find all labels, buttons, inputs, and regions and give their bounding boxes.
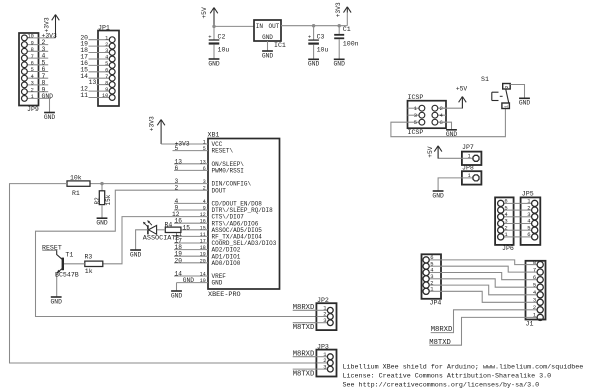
wire JP4 pin 6 to J1 pin 8 — [441, 260, 526, 265]
svg-text:3: 3 — [323, 363, 326, 370]
svg-text:9: 9 — [105, 87, 108, 93]
svg-text:18: 18 — [200, 245, 206, 251]
svg-text:2: 2 — [175, 185, 179, 192]
svg-text:C3: C3 — [317, 34, 325, 41]
svg-text:6: 6 — [175, 165, 179, 172]
svg-text:+5V: +5V — [201, 7, 208, 19]
wire JP7 to +5V — [438, 148, 462, 159]
ground (C1) — [334, 59, 346, 67]
svg-text:15: 15 — [200, 225, 206, 231]
ground (S1) — [519, 98, 531, 106]
svg-text:M8TXD: M8TXD — [429, 339, 451, 347]
svg-text:6: 6 — [203, 166, 206, 172]
svg-text:15: 15 — [183, 224, 191, 231]
led ASSOCIATE — [143, 220, 180, 242]
svg-text:S1: S1 — [481, 76, 489, 83]
svg-text:100n: 100n — [343, 40, 359, 47]
svg-text:+3V3: +3V3 — [43, 17, 50, 32]
wire S1 pin 2 to ground — [510, 85, 524, 99]
transistor T1 BC547B — [55, 250, 85, 297]
ground (C2) — [208, 59, 220, 67]
svg-text:4: 4 — [203, 199, 206, 205]
connector JP7 — [462, 144, 482, 165]
svg-text:C1: C1 — [343, 26, 351, 33]
svg-text:7: 7 — [105, 74, 108, 80]
capacitor C2 10u — [208, 33, 229, 59]
power +3V3 (above JP9) — [43, 15, 59, 38]
svg-text:13: 13 — [89, 79, 97, 86]
svg-text:GND: GND — [308, 61, 320, 68]
svg-text:See http://creativecommons.org: See http://creativecommons.org/licenses/… — [343, 381, 540, 388]
svg-text:1: 1 — [31, 94, 34, 100]
ground (JP9 pin1) — [44, 113, 56, 121]
svg-text:R4: R4 — [165, 221, 173, 228]
wire XB1 pin 15 to R4 — [181, 224, 208, 231]
svg-text:M8RXD: M8RXD — [293, 351, 315, 359]
svg-text:1: 1 — [503, 105, 509, 108]
svg-text:5: 5 — [31, 67, 34, 73]
ground (ICSP) — [446, 130, 458, 138]
svg-text:4: 4 — [31, 74, 34, 80]
wire JP4 pin 2 to J1 pin 4 — [441, 285, 526, 295]
svg-text:IN: IN — [256, 23, 264, 30]
wire ICSP pin 5 to S1 — [391, 109, 506, 137]
voltage regulator IC1 — [254, 20, 286, 49]
svg-text:XBEE-PRO: XBEE-PRO — [208, 291, 241, 299]
wire M8TXD to J1 pin 1 — [429, 317, 525, 347]
svg-text:GND: GND — [171, 292, 183, 299]
wire IC1 GND pin — [267, 41, 269, 51]
net label M8RXD (JP3 pin 1) — [293, 351, 317, 359]
svg-text:GND: GND — [183, 277, 194, 284]
svg-text:+5V: +5V — [427, 146, 434, 158]
svg-text:5: 5 — [175, 145, 179, 152]
wire JP4 pin 3 to J1 pin 5 — [441, 279, 526, 287]
wire net 5 to XB1 pin 5 (RESET) — [173, 145, 209, 152]
svg-text:C2: C2 — [218, 34, 226, 41]
connector JP5 — [521, 190, 541, 245]
wire M8RXD to J1 pin 2 — [431, 310, 526, 334]
wire +5V / C2 to IC1 IN — [212, 25, 254, 40]
svg-text:1k: 1k — [85, 268, 93, 275]
switch S1 — [481, 76, 510, 109]
svg-text:+5V: +5V — [456, 86, 468, 93]
svg-text:9: 9 — [31, 40, 34, 46]
svg-text:6: 6 — [105, 68, 108, 74]
svg-text:JP9: JP9 — [27, 106, 39, 113]
svg-text:RESET\: RESET\ — [212, 148, 234, 155]
wire IC1 OUT to +3V3 rail — [281, 13, 347, 28]
module XB1 (XBEE-PRO) — [174, 131, 280, 299]
ground (JP8) — [432, 191, 444, 199]
svg-text:8: 8 — [533, 259, 536, 266]
wire DIN net: R1 to XB1 pin 3 — [90, 178, 208, 185]
svg-text:5: 5 — [414, 120, 417, 126]
svg-text:1: 1 — [203, 140, 206, 146]
svg-text:10u: 10u — [317, 47, 329, 54]
svg-text:14: 14 — [80, 73, 88, 80]
svg-text:+: + — [208, 33, 211, 40]
svg-text:6: 6 — [527, 231, 530, 238]
wire JP4 pin 5 to J1 pin 7 — [441, 266, 526, 272]
connector J1 — [526, 259, 546, 328]
wires JP6 to JP5 — [514, 203, 521, 237]
svg-text:4: 4 — [440, 113, 443, 119]
svg-text:19: 19 — [200, 252, 206, 258]
svg-text:GND: GND — [432, 192, 444, 199]
svg-text:3: 3 — [203, 179, 206, 185]
svg-text:3: 3 — [323, 317, 326, 324]
svg-text:15k: 15k — [105, 194, 112, 205]
connector JP4 — [422, 254, 442, 307]
svg-text:10: 10 — [200, 278, 206, 284]
svg-text:M8TXD: M8TXD — [293, 370, 315, 378]
svg-text:GND: GND — [212, 280, 223, 287]
svg-text:M8RXD: M8RXD — [431, 326, 453, 334]
ground (R2) — [96, 218, 108, 226]
wire JP4 pin 4 to J1 pin 6 — [441, 273, 526, 280]
power +3V3 (XBee VCC) — [149, 116, 165, 144]
svg-text:IC1: IC1 — [274, 42, 286, 49]
svg-text:10k: 10k — [70, 175, 82, 182]
svg-text:R3: R3 — [85, 253, 93, 260]
svg-text:16: 16 — [175, 218, 183, 225]
wire JP8 to ground — [438, 178, 462, 191]
svg-text:GND: GND — [334, 61, 346, 68]
svg-text:DOUT: DOUT — [212, 187, 227, 194]
svg-text:+3V3: +3V3 — [149, 116, 156, 131]
svg-text:6: 6 — [440, 120, 443, 126]
connector JP1 — [80, 25, 119, 106]
net label M8RXD (JP2 pin 1) — [293, 304, 317, 312]
caption text — [343, 363, 584, 388]
svg-text:T1: T1 — [65, 251, 73, 258]
wire +3V3 to XB1 pin 1 (VCC) — [161, 140, 208, 147]
svg-text:ICSP: ICSP — [408, 129, 424, 136]
svg-text:9: 9 — [203, 206, 206, 212]
power +5V (JP7) — [427, 146, 442, 159]
svg-text:PWM0/RSSI: PWM0/RSSI — [212, 168, 244, 175]
svg-text:1: 1 — [105, 35, 108, 41]
svg-text:8: 8 — [105, 80, 108, 86]
svg-text:6: 6 — [31, 61, 34, 67]
svg-text:7: 7 — [533, 266, 536, 273]
svg-text:3: 3 — [31, 81, 34, 87]
svg-text:GND: GND — [519, 100, 531, 107]
ground (T1 emitter) — [51, 297, 63, 305]
svg-text:5: 5 — [203, 146, 206, 152]
svg-text:1: 1 — [468, 173, 471, 179]
svg-text:2: 2 — [31, 87, 34, 93]
svg-text:2: 2 — [440, 106, 443, 112]
svg-text:4: 4 — [105, 55, 108, 61]
svg-text:M8TXD: M8TXD — [293, 324, 315, 332]
connector JP9 — [19, 33, 57, 114]
svg-text:JP7: JP7 — [462, 144, 474, 151]
svg-text:16: 16 — [200, 219, 206, 225]
svg-text:+3V3: +3V3 — [335, 2, 342, 17]
svg-text:12: 12 — [200, 212, 206, 218]
wire CTS net: XB1 pin 12 to R3 — [103, 211, 208, 264]
svg-text:GND: GND — [42, 93, 54, 100]
ground (LED) — [130, 250, 142, 258]
svg-text:M8RXD: M8RXD — [293, 304, 315, 312]
svg-text:7: 7 — [31, 54, 34, 60]
svg-text:1: 1 — [468, 153, 471, 159]
svg-text:J1: J1 — [526, 321, 534, 328]
ground (IC1) — [262, 51, 274, 59]
connector ICSP — [408, 94, 447, 136]
resistor R3 1k — [85, 253, 103, 275]
power +5V (ICSP) — [456, 86, 468, 109]
svg-text:+: + — [308, 34, 311, 41]
svg-text:17: 17 — [200, 239, 206, 245]
wire JP4 pin 1 to J1 pin 3 — [441, 291, 526, 302]
svg-text:5: 5 — [533, 281, 536, 288]
resistor R4 — [165, 221, 181, 232]
capacitor C3 10u — [308, 26, 329, 60]
svg-text:6: 6 — [533, 274, 536, 281]
svg-text:10u: 10u — [218, 47, 230, 54]
wire R1 to JP3 pin 2 (long left bus) — [10, 184, 317, 363]
svg-text:XB1: XB1 — [208, 131, 220, 138]
net label M8TXD (JP2 pin 3) — [293, 323, 317, 332]
svg-text:14: 14 — [175, 271, 183, 278]
resistor R1 10k — [67, 175, 90, 197]
connector JP3 — [316, 343, 336, 376]
svg-text:1: 1 — [414, 106, 417, 112]
svg-text:2: 2 — [203, 186, 206, 192]
ground (XB1 pin 10) — [171, 291, 183, 299]
ground (C3) — [308, 59, 320, 67]
wire LED to ground — [136, 230, 148, 250]
svg-text:R1: R1 — [72, 190, 80, 197]
svg-text:20: 20 — [175, 257, 183, 264]
svg-text:GND: GND — [208, 60, 220, 67]
svg-text:12: 12 — [172, 211, 180, 218]
svg-text:3: 3 — [105, 48, 108, 54]
svg-text:GND: GND — [51, 298, 63, 305]
net label M8TXD (JP3 pin 3) — [293, 369, 317, 378]
svg-text:3: 3 — [533, 297, 536, 304]
svg-text:License: Creative Commons Attr: License: Creative Commons Attribution-Sh… — [343, 372, 552, 380]
svg-text:BC547B: BC547B — [55, 272, 79, 279]
svg-text:JP4: JP4 — [430, 300, 442, 307]
net label RESET — [42, 244, 62, 251]
svg-text:11: 11 — [80, 92, 88, 99]
svg-text:RESET: RESET — [42, 244, 62, 251]
svg-text:2: 2 — [105, 42, 108, 48]
resistor R2 15k — [94, 184, 112, 219]
capacitor C1 100n — [334, 26, 358, 60]
wire R4 to LED — [157, 229, 166, 231]
svg-text:14: 14 — [200, 272, 206, 278]
svg-text:10: 10 — [102, 93, 108, 99]
svg-text:GND: GND — [262, 34, 273, 41]
svg-text:Libellium XBee shield for Ardu: Libellium XBee shield for Arduino; www.l… — [343, 363, 584, 371]
svg-text:GND: GND — [96, 220, 108, 227]
svg-text:GND: GND — [44, 114, 56, 121]
connector JP8 — [462, 165, 482, 185]
connector JP2 — [316, 297, 336, 330]
svg-text:20: 20 — [200, 258, 206, 264]
svg-text:GND: GND — [130, 251, 142, 258]
svg-text:11: 11 — [200, 232, 206, 238]
wire DOUT net: XB1 pin 2 to JP2 pin 2 — [36, 185, 317, 317]
svg-text:JP5: JP5 — [522, 190, 534, 197]
svg-text:AD0/DIO0: AD0/DIO0 — [212, 260, 241, 267]
svg-text:OUT: OUT — [268, 23, 279, 30]
wire JP9 pin1 to ground — [49, 98, 51, 112]
svg-text:5: 5 — [105, 61, 108, 67]
wire XB1 GND pin 10 to ground — [177, 277, 209, 291]
wire ICSP pin 2 to +5V — [438, 97, 462, 109]
power +5V (regulator input) — [201, 7, 218, 26]
power +3V3 (regulator output) — [335, 2, 351, 17]
connector JP6 — [495, 197, 514, 252]
svg-text:10: 10 — [27, 34, 33, 40]
wire ICSP pin 6 to ground — [438, 122, 452, 130]
svg-text:JP6: JP6 — [502, 245, 514, 252]
svg-text:GND: GND — [262, 52, 274, 59]
svg-text:R2: R2 — [94, 197, 101, 205]
svg-text:2: 2 — [504, 85, 510, 88]
svg-text:ASSOCIATE: ASSOCIATE — [143, 235, 180, 243]
svg-text:13: 13 — [200, 159, 206, 165]
svg-text:3: 3 — [414, 113, 417, 119]
svg-text:8: 8 — [31, 47, 34, 53]
svg-text:2: 2 — [533, 304, 536, 311]
